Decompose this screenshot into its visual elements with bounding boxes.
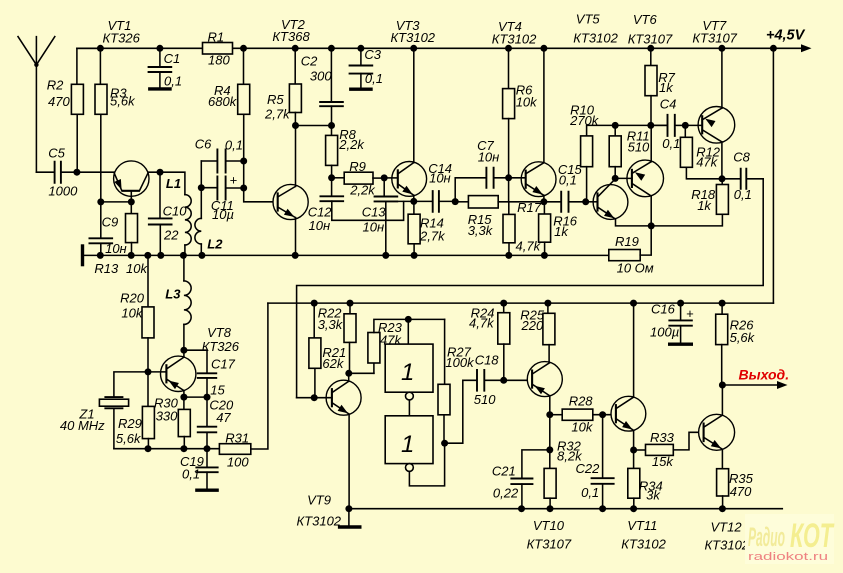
capacitor C7 [455,178,486,202]
transistor VT10 [527,362,562,397]
svg-text:3,3k: 3,3k [468,223,494,238]
gate DD1.1 output bubble [406,392,414,400]
svg-text:510: 510 [628,140,650,155]
oscillator resistor R20 [147,255,149,307]
resistor R7 [647,45,654,52]
svg-text:1k: 1k [697,198,712,213]
VT9 emitter wire [348,414,350,509]
svg-text:C16: C16 [651,302,676,317]
svg-text:R2: R2 [47,78,64,93]
middle ground rail [83,254,609,256]
VT4 emitter wire [543,195,545,201]
svg-text:10k: 10k [121,306,143,321]
svg-text:КТ326: КТ326 [103,31,141,46]
svg-text:C2: C2 [301,54,318,69]
svg-text:470: 470 [48,94,70,109]
capacitor C11 [201,187,217,189]
resistor R33 [634,449,646,451]
capacitor C1 [156,45,163,52]
supply feed wire [770,45,777,52]
transistor VT6 [627,160,664,197]
svg-text:0,1: 0,1 [581,485,599,500]
svg-text:L1: L1 [166,176,181,191]
capacitor C9 [100,202,102,238]
resistor R17 [508,202,510,215]
svg-text:330: 330 [156,409,178,424]
resistor R11 [612,122,619,129]
wire C8 return [297,179,764,398]
svg-text:R28: R28 [569,394,594,409]
resistor R3 [97,45,104,52]
svg-text:10 Ом: 10 Ом [617,261,654,276]
svg-text:62k: 62k [322,356,344,371]
transistor VT1 [114,161,149,196]
svg-text:1: 1 [401,431,414,458]
capacitor C20 [206,397,208,426]
capacitor C4 [651,124,667,126]
svg-text:8,2k: 8,2k [557,448,583,463]
svg-text:КТ3107: КТ3107 [628,32,673,47]
svg-text:R17: R17 [517,200,542,215]
svg-text:1k: 1k [659,80,674,95]
resistor R10 [587,125,668,135]
VT2 emitter wire [295,218,297,256]
VT8 emitter wire [183,391,185,398]
capacitor C13 [383,178,385,196]
logic gate DD1.2 [385,416,433,464]
inductor L3 [183,255,185,281]
svg-text:Выход.: Выход. [739,366,790,382]
ground symbol VT9 [348,509,350,526]
svg-text:0,1: 0,1 [734,187,752,202]
svg-text:R13: R13 [94,261,119,276]
svg-text:100k: 100k [445,355,475,370]
transistor VT12 [699,414,735,450]
resistor R8 [331,126,333,136]
svg-text:2,7k: 2,7k [419,229,446,244]
svg-text:5,6k: 5,6k [110,94,136,109]
gate DD1.2 output wire [409,443,444,486]
svg-text:0,1: 0,1 [225,137,243,152]
svg-text:R9: R9 [349,159,366,174]
svg-text:680k: 680k [208,94,238,109]
svg-text:0,1: 0,1 [365,71,383,86]
resistor R25 [544,300,551,307]
resistor R24 [500,300,507,307]
output wire [722,384,777,386]
svg-text:C18: C18 [475,353,500,368]
resistor R29 [147,372,149,407]
resistor R22 [349,303,351,314]
resistor R34 [633,450,635,468]
resistor R27 [444,319,446,384]
svg-text:C10: C10 [163,204,188,219]
svg-text:2,2k: 2,2k [338,137,365,152]
svg-text:VT12: VT12 [711,519,743,534]
svg-text:+: + [230,173,238,188]
capacitor C19 [206,449,208,468]
svg-text:R1: R1 [208,30,225,45]
svg-text:C13: C13 [362,205,387,220]
capacitor C21 [522,450,550,478]
transistor VT7 [698,107,735,144]
svg-text:10н: 10н [105,241,127,256]
transistor VT9 [326,380,361,415]
VT9 collector wire [348,373,350,381]
svg-text:10µ: 10µ [212,207,234,222]
svg-text:470: 470 [730,484,752,499]
resistor R30 [183,397,185,409]
svg-text:КТ368: КТ368 [272,29,310,44]
svg-text:VT6: VT6 [633,12,658,27]
svg-text:C22: C22 [576,461,601,476]
svg-text:270k: 270k [569,113,600,128]
resistor R35 [717,469,729,496]
resistor R32 [549,450,551,469]
svg-text:22: 22 [163,227,179,242]
svg-text:220: 220 [521,318,544,333]
capacitor C3 [357,45,364,52]
capacitor C10 [159,172,161,218]
svg-text:10н: 10н [429,170,451,185]
VT1 base wire [101,201,132,203]
svg-text:0,1: 0,1 [662,136,680,151]
resistor R13 [130,202,132,214]
capacitor C22 [602,415,604,478]
svg-text:47k: 47k [696,155,718,170]
svg-text:radiokot.ru: radiokot.ru [748,551,828,563]
resistor R12 [684,125,686,137]
svg-text:2,2k: 2,2k [349,182,376,197]
svg-text:3k: 3k [646,488,661,503]
wire VT10 to R32 [549,415,551,450]
svg-text:1: 1 [401,359,414,386]
inductor L2 [200,161,202,218]
svg-text:R29: R29 [118,416,142,431]
VT11 emitter wire [633,430,635,450]
resistor R16 [543,202,545,214]
VT6 collector wire [650,196,652,226]
transistor VT11 [611,396,646,431]
transistor VT5 [593,185,628,220]
+4.5V supply rail [77,47,802,49]
svg-text:C3: C3 [364,47,381,62]
resistor R26 [719,300,726,307]
transistor VT2 [273,184,308,219]
svg-text:5,6k: 5,6k [730,330,756,345]
svg-text:R19: R19 [615,234,639,249]
svg-text:КТ3102: КТ3102 [297,514,342,529]
svg-text:100: 100 [227,455,249,470]
svg-text:L3: L3 [165,286,181,301]
resistor R4 [240,45,247,52]
VT12 collector wire [721,385,723,415]
resistor R28 [550,414,562,416]
svg-text:10н: 10н [363,219,385,234]
svg-text:1k: 1k [554,224,569,239]
junction dots on middle rail [97,252,104,259]
supply arrowhead [801,44,812,52]
resistor R23 [373,363,375,373]
capacitor C14 [414,200,433,202]
svg-text:КТ3107: КТ3107 [527,537,572,552]
svg-text:C21: C21 [492,464,516,479]
svg-text:C17: C17 [211,357,236,372]
capacitor C16 [677,300,684,307]
svg-text:КТ3102: КТ3102 [705,538,750,553]
resistor R21 [313,303,315,338]
antenna W1 [35,37,37,173]
svg-text:15k: 15k [652,454,674,469]
svg-text:10н: 10н [309,218,331,233]
capacitor C18 [445,380,477,443]
svg-text:Радио: Радио [748,522,785,552]
svg-text:C9: C9 [102,215,119,230]
gate DD1.2 output bubble [406,464,414,472]
resistor R19 [609,250,640,261]
watermark [745,514,835,564]
VT1 collector wire to L1 [148,172,185,194]
svg-text:10k: 10k [571,420,593,435]
capacitor C17 [184,350,207,373]
capacitor C12 [331,178,333,196]
svg-text:4,7k: 4,7k [516,239,542,254]
svg-text:0,1: 0,1 [559,173,577,188]
crystal Z1 [114,372,148,397]
resistor R31 [219,444,250,455]
wire VT9 collector to R23 [349,372,374,374]
transistor VT8 [161,356,196,391]
capacitor C2 [328,45,335,52]
output arrowhead [777,381,788,389]
svg-text:VT5: VT5 [576,12,601,27]
resistor R15 [455,201,468,203]
svg-text:КТ3102: КТ3102 [391,30,436,45]
svg-text:VT8: VT8 [207,325,232,340]
svg-text:C1: C1 [164,51,181,66]
bottom ground rail [349,508,782,510]
svg-text:0,1: 0,1 [182,466,200,481]
svg-text:2,7k: 2,7k [264,107,291,122]
resistor R18 [721,179,723,185]
svg-text:3,3k: 3,3k [318,317,344,332]
svg-text:КТ3102: КТ3102 [573,31,618,46]
svg-text:5,6k: 5,6k [116,431,142,446]
node C5/R2 [73,169,80,176]
svg-text:R33: R33 [650,430,675,445]
svg-text:КОТ: КОТ [790,517,835,555]
resistor R2 [77,48,101,84]
capacitor C5 [55,161,61,184]
svg-text:+: + [686,306,694,321]
svg-text:1000: 1000 [48,183,78,198]
VT4 collector wire [543,48,545,162]
wire C5 to VT1 emitter [61,171,114,173]
node R22 on lower rail [347,300,354,307]
svg-text:L2: L2 [207,237,223,252]
svg-text:C5: C5 [48,146,65,161]
resistor R9 [332,177,345,179]
node R21 on lower rail [311,300,318,307]
resistor R14 [413,201,415,214]
svg-text:C4: C4 [660,96,677,111]
VT3 emitter wire [413,195,415,201]
svg-text:C8: C8 [733,150,750,165]
svg-text:R5: R5 [267,92,284,107]
svg-text:15: 15 [210,383,225,398]
svg-text:300: 300 [310,69,332,84]
svg-text:R20: R20 [120,291,145,306]
VT6 emitter wire [650,125,652,161]
transistor VT4 [521,162,556,197]
svg-text:100µ: 100µ [650,325,679,340]
svg-text:10k: 10k [126,261,148,276]
svg-text:R31: R31 [225,430,249,445]
svg-text:КТ3102: КТ3102 [621,537,666,552]
svg-text:47: 47 [216,410,231,425]
svg-text:40 MHz: 40 MHz [60,418,105,433]
VT11 collector wire [633,303,635,397]
svg-text:VT11: VT11 [627,518,657,533]
oscillator bottom wire [114,448,219,450]
svg-text:510: 510 [474,392,496,407]
svg-text:КТ3107: КТ3107 [692,31,737,46]
resistor R6 [505,45,512,52]
svg-text:0,1: 0,1 [164,73,182,88]
VT2 collector wire [295,126,297,187]
svg-text:VT9: VT9 [307,493,331,508]
VT12 emitter wire [721,449,723,469]
capacitor C6 [201,160,217,162]
svg-text:VT10: VT10 [533,518,565,533]
VT5 emitter wire [616,219,652,226]
VT8 collector wire [183,350,185,357]
capacitor C15 [544,201,561,203]
wire gate1 to gate2 [408,400,410,416]
transistor VT3 [392,162,427,197]
svg-text:+4,5V: +4,5V [766,28,806,44]
capacitor C8 [722,178,740,180]
wire R5 bottom to C2 node [296,125,332,127]
svg-text:10н: 10н [478,150,500,165]
VT7 emitter wire [721,48,723,108]
ground bar left end [81,244,84,266]
svg-text:КТ3102: КТ3102 [492,32,537,47]
logic gate DD1.1 [407,319,409,344]
VT3 collector wire [413,48,415,162]
VT1 base lead [130,191,132,202]
svg-text:C6: C6 [195,137,212,152]
svg-text:0,22: 0,22 [493,486,519,501]
wire antenna to C5 [36,171,54,173]
resistor R1 [203,43,233,55]
svg-text:10k: 10k [516,94,538,109]
lower supply rail [268,302,774,304]
VT7 collector wire [721,142,723,179]
svg-text:4,7k: 4,7k [469,316,495,331]
svg-text:180: 180 [208,52,230,67]
inductor L1 [185,195,191,245]
VT10 lower lead wire [549,396,551,415]
resistor R5 [292,45,299,52]
